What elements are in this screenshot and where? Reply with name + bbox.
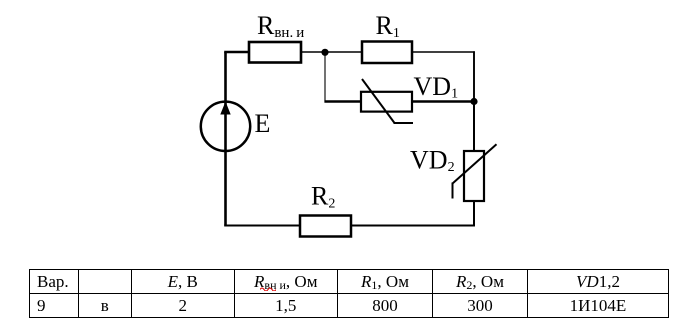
parameters table bbox=[29, 269, 669, 318]
label VD2 bbox=[410, 146, 455, 176]
varistor VD2 bbox=[453, 144, 497, 201]
label Rвн.и bbox=[257, 11, 304, 41]
wire Rвн.и to R1 bbox=[301, 51, 362, 53]
red spellcheck squiggle under subscript bbox=[260, 286, 276, 291]
varistor VD1 bbox=[361, 79, 413, 123]
svg-text:R2: R2 bbox=[311, 182, 335, 212]
svg-text:E: E bbox=[255, 109, 271, 138]
wire bottom right horizontal bbox=[351, 225, 475, 227]
wire bottom left horizontal bbox=[224, 225, 300, 227]
svg-text:VD1: VD1 bbox=[414, 72, 459, 102]
label E bbox=[255, 109, 271, 138]
wire top-left horizontal bbox=[224, 51, 249, 54]
wire left vertical (E branch) bbox=[224, 52, 227, 226]
svg-text:VD2: VD2 bbox=[410, 146, 455, 176]
resistor R1 bbox=[362, 42, 412, 64]
label VD1 bbox=[414, 72, 459, 102]
current source E (circle with up arrow) bbox=[201, 102, 250, 152]
resistor Rвн.и bbox=[249, 42, 301, 63]
wire VD2 bottom lead bbox=[473, 201, 475, 226]
label R1 bbox=[376, 11, 400, 41]
resistor R2 bbox=[300, 216, 351, 237]
node junction B bbox=[470, 98, 477, 105]
wire VD1 left lead bbox=[324, 100, 361, 102]
svg-text:Rвн. и: Rвн. и bbox=[257, 11, 304, 41]
wire node B down to VD2 bbox=[473, 102, 475, 152]
wire VD1 right lead bbox=[412, 100, 474, 102]
svg-text:R1: R1 bbox=[376, 11, 400, 41]
node junction A bbox=[321, 49, 328, 56]
wire R1 to right corner bbox=[412, 51, 475, 53]
wire right vertical R1 to node B bbox=[473, 51, 475, 101]
label R2 bbox=[311, 182, 335, 212]
wire node A down to VD1 branch bbox=[324, 52, 326, 102]
